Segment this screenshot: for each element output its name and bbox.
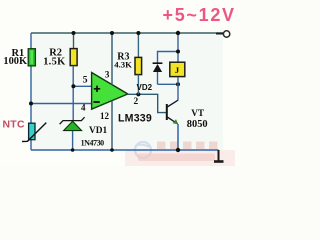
wire bottom rail: [31, 149, 219, 151]
svg-text:VT: VT: [191, 108, 204, 118]
wire left frame: [30, 33, 32, 150]
diode VD2: [153, 63, 163, 84]
svg-text:1.5K: 1.5K: [43, 57, 65, 68]
svg-text:4: 4: [81, 103, 86, 113]
junction dot diode/relay top: [176, 50, 180, 54]
junction dots on bottom rail: [71, 148, 75, 152]
wire pin3 to rail: [111, 33, 113, 85]
wire top rail dark end: [216, 33, 223, 35]
bottom pink band (watermark zone): [125, 150, 235, 166]
svg-text:J: J: [175, 65, 180, 75]
plus sign inside: [94, 86, 100, 92]
wire noninverting input: [73, 85, 92, 87]
NTC thermistor: [22, 123, 46, 142]
junction dot diode/relay bottom: [176, 82, 180, 86]
minus sign inside: [94, 101, 100, 103]
relay J: [170, 62, 185, 76]
resistor R2: [70, 49, 77, 66]
terminal +V circle: [223, 31, 229, 37]
svg-text:2: 2: [134, 97, 139, 107]
svg-text:VD2: VD2: [137, 83, 153, 92]
zener diode VD1: [60, 117, 85, 150]
wire R3 bottom: [137, 75, 139, 95]
svg-text:4.3K: 4.3K: [114, 60, 132, 70]
resistor R3: [135, 57, 142, 74]
junction dot output / R3: [136, 92, 140, 96]
wire relay bottom to collector: [177, 78, 179, 101]
svg-text:5: 5: [83, 74, 88, 85]
wire inverting input: [31, 103, 92, 105]
watermark bar: [138, 154, 215, 162]
wire pin12 to bottom rail: [111, 101, 113, 151]
svg-text:8050: 8050: [187, 119, 208, 130]
wire V+ branch to relay/diode: [177, 33, 179, 62]
wire top rail: [31, 32, 223, 34]
svg-text:VD1: VD1: [89, 126, 108, 136]
watermark text row: [157, 142, 218, 150]
junction dot +input: [71, 84, 75, 88]
watermark logo swirl: [135, 142, 151, 158]
wire diode bottom branch: [158, 83, 179, 85]
svg-text:1N4730: 1N4730: [81, 139, 105, 148]
svg-text:100K: 100K: [3, 56, 27, 67]
svg-text:NTC: NTC: [3, 120, 25, 131]
svg-text:LM339: LM339: [118, 113, 152, 125]
wire output pin2: [128, 94, 166, 112]
wire R2 bottom to zener VD1: [72, 66, 74, 121]
transistor VT 8050: [166, 100, 178, 150]
wire R3 top: [137, 33, 139, 57]
junction dot left frame / inverting input: [29, 102, 33, 106]
inner circuit tint: [31, 33, 223, 150]
svg-text:+5~12V: +5~12V: [163, 5, 236, 25]
svg-text:3: 3: [105, 70, 110, 80]
resistor R1: [28, 49, 35, 66]
ground: [214, 150, 224, 162]
wire diode top branch: [158, 52, 179, 63]
svg-text:12: 12: [100, 111, 110, 121]
op-amp U1 LM339: [92, 73, 128, 110]
junction dots on top rail: [72, 31, 76, 35]
wire R2 column top: [73, 33, 75, 49]
